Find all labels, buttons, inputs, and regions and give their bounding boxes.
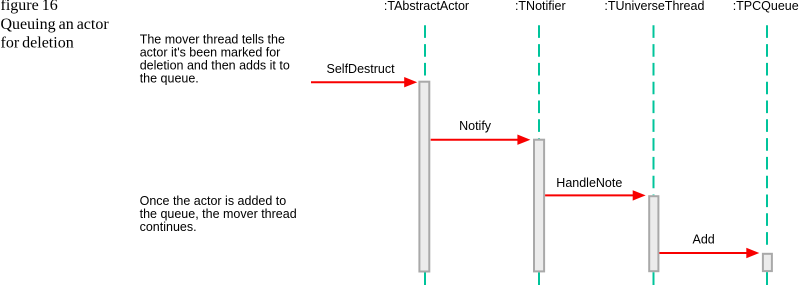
figure caption "figure 16 / Queuing an actor / for deletion" (1, 0, 110, 51)
lifeline :TPCQueue dashed segment (766, 25, 768, 244)
activation bar :TPCQueue (763, 254, 772, 271)
note paragraph 1 "The mover thread tells the actor..." (140, 33, 290, 86)
svg-text:Notify: Notify (459, 119, 492, 133)
svg-text:figure 16: figure 16 (1, 0, 58, 14)
svg-text:Once the actor is added to: Once the actor is added to (140, 194, 287, 208)
svg-text:the queue.: the queue. (140, 71, 199, 85)
svg-text::TUniverseThread: :TUniverseThread (604, 0, 704, 13)
svg-text:for deletion: for deletion (1, 34, 74, 51)
note paragraph 2 "Once the actor is added..." (140, 194, 297, 234)
lifeline :TUniverseThread solid tail (653, 272, 655, 285)
svg-text:The mover thread tells the: The mover thread tells the (140, 33, 285, 47)
lifeline :TNotifier dashed segment (538, 25, 540, 138)
svg-text:SelfDestruct: SelfDestruct (327, 62, 396, 76)
message arrow Add (659, 248, 759, 258)
svg-text:deletion and then adds it to: deletion and then adds it to (140, 58, 290, 72)
svg-text:Queuing an actor: Queuing an actor (1, 16, 110, 33)
svg-text::TAbstractActor: :TAbstractActor (384, 0, 469, 13)
lifeline :TAbstractActor dashed segment (424, 25, 426, 80)
lifeline :TPCQueue solid tail (766, 272, 768, 285)
lifeline :TAbstractActor solid tail (424, 273, 426, 285)
lifeline :TUniverseThread dashed segment (653, 25, 655, 195)
activation bar :TAbstractActor (419, 82, 429, 272)
activation bar :TNotifier (534, 140, 544, 272)
svg-text:Add: Add (693, 232, 715, 246)
svg-text:HandleNote: HandleNote (556, 176, 622, 190)
svg-text:continues.: continues. (140, 220, 197, 234)
message arrow Notify (431, 135, 531, 145)
svg-text::TNotifier: :TNotifier (515, 0, 566, 13)
message arrow HandleNote (545, 190, 646, 200)
activation bar :TUniverseThread (649, 196, 658, 271)
svg-text:actor it's been marked for: actor it's been marked for (140, 46, 281, 60)
message arrow SelfDestruct (311, 77, 417, 87)
lifeline :TNotifier solid tail (538, 272, 540, 285)
svg-text::TPCQueue: :TPCQueue (733, 0, 799, 13)
